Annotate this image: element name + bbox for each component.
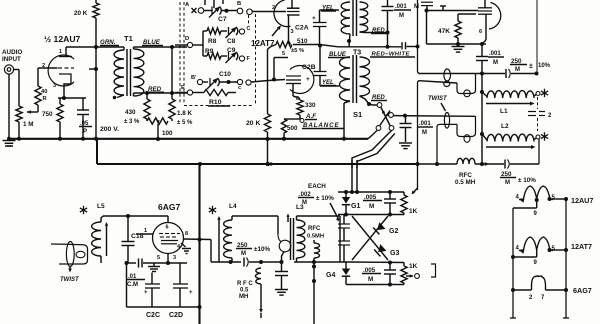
T1 secondary bottom lead [134, 91, 188, 96]
stub at bus [89, 68, 96, 70]
heater 6AG7 wires [511, 288, 568, 292]
RFC bus2 [417, 158, 504, 166]
svg-text:0.5MH: 0.5MH [307, 234, 324, 240]
wire 20K to bus2 [266, 137, 270, 166]
trimmer C8 [226, 27, 238, 38]
cropped wires top [205, 0, 223, 8]
svg-text:6: 6 [166, 225, 169, 231]
terminal c2 [237, 79, 285, 91]
label R10 [208, 99, 230, 106]
S1 red lead dot [367, 102, 371, 106]
label R8 [208, 38, 217, 45]
svg-text:3: 3 [173, 255, 176, 261]
V3 pin6 lead [166, 216, 169, 231]
V3 plate lead pin8 [184, 231, 212, 242]
V2b grid bars [286, 76, 301, 84]
vertical 417 lower [416, 81, 421, 190]
svg-text:L5: L5 [97, 203, 105, 210]
V2a plate [287, 0, 300, 8]
svg-text:.001: .001 [489, 51, 501, 57]
svg-text:430: 430 [125, 109, 136, 116]
wire AU7 to right [553, 197, 568, 318]
svg-text:L1: L1 [500, 108, 508, 115]
mod mid wire [338, 213, 404, 217]
resistor 510 [268, 41, 293, 49]
svg-text:TWIST: TWIST [428, 96, 448, 102]
heater 12AU7 [519, 186, 553, 203]
S1 blade 1 [381, 108, 390, 126]
svg-text:P: P [83, 129, 87, 135]
svg-text:L4: L4 [229, 203, 237, 210]
TWIST eye [76, 251, 85, 257]
label C2D [169, 312, 183, 319]
capacitor C2D [173, 263, 193, 307]
label TWIST lower [60, 277, 80, 283]
T3 lower primary [340, 57, 351, 101]
svg-text:.001: .001 [395, 4, 407, 10]
wire L3 top [297, 215, 341, 217]
label C2A [295, 25, 309, 32]
svg-text:S1: S1 [353, 110, 362, 119]
svg-text:M: M [302, 200, 307, 206]
output bracket [431, 264, 436, 277]
wire L2 down [538, 139, 540, 164]
label RED-WHITE [370, 52, 415, 58]
T3 lower secondary bottom lead [360, 96, 378, 105]
bus2 dots right [435, 162, 484, 166]
svg-text:+: + [312, 15, 316, 22]
label 250 M upper [510, 58, 551, 73]
resistor 20K top [93, 0, 99, 47]
svg-text:M: M [414, 4, 419, 10]
svg-text:B: B [237, 1, 241, 7]
V2a grid cathode [287, 12, 300, 45]
TWIST tall oval [66, 242, 74, 267]
label BLUE T3 [328, 51, 350, 58]
label 20K top [74, 10, 88, 17]
svg-text:± 10%: ± 10% [518, 177, 536, 184]
svg-text:E: E [181, 85, 185, 91]
svg-text:MH: MH [239, 294, 248, 300]
svg-text:40: 40 [41, 89, 47, 95]
label 1.8K [177, 110, 193, 126]
label 200 V [100, 126, 119, 133]
terminal B-prime [191, 75, 208, 85]
star L1 [541, 89, 548, 97]
svg-text:5: 5 [282, 51, 285, 57]
label .001 M cathode [488, 51, 504, 66]
dashed box bottom [184, 105, 254, 107]
label 6AG7 right [573, 286, 592, 295]
wire L4 top [232, 215, 278, 217]
terminal B [237, 1, 286, 15]
wire AT7 right [553, 248, 568, 252]
svg-text:6: 6 [479, 29, 482, 35]
svg-text:TWIST: TWIST [60, 277, 80, 283]
cropped cap top right [414, 2, 433, 10]
potentiometer 1M [16, 105, 38, 139]
T3 core upper [353, 0, 357, 36]
label arrow to caps [330, 203, 339, 222]
coil L5 [92, 216, 103, 263]
coil L1 [480, 90, 540, 98]
T3 lower secondary [360, 57, 370, 96]
label C2B [302, 64, 316, 71]
bottom bus lower left [127, 263, 202, 309]
svg-text:±: ± [529, 63, 533, 70]
RFC under L4 [255, 268, 261, 284]
V1 pin 3 [53, 83, 56, 89]
V1 cathode [59, 74, 71, 98]
S1 blade 2 [380, 111, 390, 126]
diode G1 [342, 192, 350, 215]
wire cathode junction [58, 96, 86, 100]
vertical right thin [536, 0, 538, 74]
svg-text:C.M: C.M [127, 282, 138, 288]
label 12AT7 [251, 26, 281, 49]
label 750 [42, 111, 53, 118]
svg-text:G3: G3 [390, 250, 399, 257]
svg-text:100: 100 [162, 130, 173, 137]
label R9 [205, 48, 214, 55]
svg-text:3: 3 [53, 83, 56, 89]
label L1 [500, 108, 508, 115]
T1 secondary top lead [134, 47, 188, 49]
wire plate GRN [66, 46, 124, 48]
label 12AU7 right [571, 196, 593, 205]
wire grid2 [427, 10, 479, 12]
twist tall oval B [444, 113, 449, 129]
svg-text:200 V.: 200 V. [100, 126, 119, 133]
svg-text:C8: C8 [227, 38, 236, 45]
ground symbol main [3, 141, 16, 147]
svg-text:6AG7: 6AG7 [158, 202, 180, 212]
mod lower wire [352, 261, 404, 265]
S1 to mod wire 1 [352, 131, 392, 191]
V2c cathode lead [482, 14, 486, 44]
L3 right rail [339, 216, 341, 262]
svg-text:.001: .001 [419, 121, 431, 127]
capacitor .001 cathode [476, 44, 488, 164]
svg-text:M: M [369, 203, 374, 210]
svg-text:G1: G1 [351, 203, 360, 210]
capacitor C18 [122, 216, 135, 265]
svg-text:± 5 %: ± 5 % [177, 120, 193, 126]
wire 330 to 500 [284, 119, 304, 123]
svg-text:R9: R9 [205, 48, 214, 55]
label G4 [326, 272, 335, 279]
label G1 [351, 203, 360, 210]
mod top wire [338, 190, 404, 194]
svg-text:T1: T1 [124, 34, 133, 43]
svg-text:R F C: R F C [237, 281, 253, 287]
V3 pin 4 [177, 244, 181, 250]
svg-text:2: 2 [272, 5, 275, 11]
wire 47K top [458, 13, 476, 15]
svg-text:8: 8 [185, 231, 188, 237]
mod diag 1 [352, 216, 388, 260]
V1 plate [59, 47, 72, 57]
V3 grids [159, 234, 180, 244]
label .002 M [298, 192, 334, 206]
svg-text:1: 1 [144, 228, 147, 234]
label 500 [287, 125, 298, 132]
main vertical lower [198, 164, 200, 324]
dashed line outer [179, 2, 181, 104]
svg-text:1.8 K: 1.8 K [177, 110, 193, 117]
label 20K [246, 120, 260, 127]
label C9 [227, 47, 236, 54]
dashed link cap 2 [537, 118, 539, 131]
dashed box right [249, 14, 256, 106]
label 330 [305, 102, 316, 109]
V2a pin 3 [291, 29, 294, 35]
resistor 40R grid [35, 68, 41, 105]
label 47K [438, 28, 450, 35]
label C7 [218, 16, 227, 23]
mod diag 2 [352, 216, 388, 260]
V3 pin 5 [157, 255, 160, 261]
svg-text:C: C [247, 26, 251, 32]
svg-text:0.5: 0.5 [240, 288, 249, 294]
node E [175, 85, 204, 95]
tube V1 half 12AU7 envelope [48, 55, 74, 86]
label 1K lower [409, 263, 418, 270]
S1 output wire [394, 115, 476, 118]
label RFC bus2 [455, 172, 476, 186]
svg-text:INPUT: INPUT [2, 56, 21, 63]
twist chain oval A2 [444, 81, 450, 86]
potentiometer 100 [147, 118, 168, 141]
svg-text:5: 5 [157, 255, 160, 261]
V2c pin 6 [479, 29, 482, 35]
label C2C [146, 312, 160, 319]
T3 upper primary bottom lead [347, 34, 351, 47]
svg-text:1K: 1K [409, 208, 418, 215]
label .005 lower [362, 267, 381, 283]
svg-text:M: M [515, 67, 520, 73]
V2c plate [478, 0, 492, 8]
svg-text:C7: C7 [218, 16, 227, 23]
star L4 [209, 206, 216, 214]
trimmer C10 [207, 78, 237, 89]
arrow L1 [486, 102, 535, 106]
wire box bottom [427, 42, 487, 46]
svg-text:L2: L2 [501, 123, 509, 130]
svg-text:RFC: RFC [308, 226, 321, 232]
link loop L1 [457, 74, 476, 94]
grid tick [440, 6, 446, 11]
label RFC L3 [307, 226, 324, 240]
svg-text:±5 %: ±5 % [291, 48, 304, 54]
diode G2 [373, 222, 385, 234]
T1 core [127, 49, 131, 96]
resistor 750 [57, 98, 63, 139]
capacitor .05 [77, 98, 89, 139]
V1 grid dashes [58, 67, 74, 69]
svg-text:M: M [368, 276, 373, 283]
label 250 M L4 [236, 242, 270, 257]
output terminal [406, 274, 419, 279]
T1 primary bottom lead [113, 95, 124, 99]
capacitor 250 bus2 [505, 160, 539, 169]
label .01 CM [127, 274, 145, 288]
svg-text:+: + [306, 76, 310, 83]
vertical 417 upper [416, 0, 421, 74]
twist chain oval A1 [444, 69, 451, 81]
link wire B lower [437, 124, 457, 164]
label C10 [219, 71, 231, 78]
mod caps column [338, 215, 350, 263]
svg-text:1 M: 1 M [23, 121, 34, 128]
resistor R10 [204, 89, 236, 95]
TWIST dangle [68, 267, 72, 273]
S1 contacts [376, 103, 394, 131]
capacitor .001 S1 [400, 116, 412, 142]
wire line to vert [407, 46, 418, 48]
label 430 [124, 109, 140, 125]
dashed box left [183, 2, 185, 104]
label RED T1 [147, 86, 164, 93]
link eye L2 [464, 135, 470, 143]
ground 47K [452, 44, 465, 52]
label 250 M bus2 [500, 171, 536, 186]
feed arrow 1K [412, 188, 418, 195]
wire L3 bottom [294, 260, 352, 264]
capacitor .005 upper [384, 192, 396, 215]
T3 core lower [353, 55, 357, 103]
wire L5 top [103, 214, 168, 218]
T1 secondary [134, 49, 144, 96]
capacitor .01 CM [139, 259, 188, 268]
capacitor 250 upper [506, 69, 539, 78]
svg-text:C10: C10 [219, 71, 231, 78]
svg-text:M: M [241, 251, 246, 257]
label .001 M s1 [418, 121, 433, 136]
coil L4 [224, 216, 232, 262]
hum bus lower (bus2) [97, 162, 417, 166]
svg-text:G2: G2 [389, 228, 398, 235]
label C8 [227, 38, 236, 45]
V3 pin1 grid lead [136, 228, 153, 234]
star L5 [80, 206, 87, 214]
wire YEL [320, 9, 340, 11]
wire jack to pot [18, 70, 20, 107]
resistor 500 [281, 119, 286, 139]
V2a pin 2 [272, 5, 275, 11]
capacitor .001 top [382, 0, 394, 33]
resistor 1K lower [401, 263, 407, 285]
bus2 hop ticks [352, 160, 357, 168]
T1 primary [114, 47, 124, 95]
svg-text:±10%: ±10% [254, 246, 270, 253]
svg-text:G4: G4 [326, 272, 335, 279]
heater 12AU7 tap [534, 198, 539, 217]
heater 6AG7 [532, 276, 546, 290]
resistor R8 [203, 28, 227, 34]
capacitor .005 lower [384, 263, 396, 285]
svg-text:C2B: C2B [302, 64, 316, 71]
T3 lower primary bottom lead [344, 101, 350, 139]
label .001 M top [394, 4, 411, 19]
label L2 [501, 123, 509, 130]
heater box top [513, 208, 537, 318]
V2b pin 8 [293, 84, 300, 103]
V2b pin 5 [272, 51, 288, 82]
svg-text:750: 750 [42, 111, 53, 118]
ground bus top section [7, 137, 368, 141]
svg-text:½ 12AU7: ½ 12AU7 [44, 34, 81, 44]
label half 12AU7 [44, 34, 81, 44]
svg-text:+: + [189, 290, 193, 296]
label .005 upper [363, 194, 382, 210]
label BLUE [142, 39, 163, 46]
wire jack ground [8, 74, 10, 139]
svg-text:R8: R8 [208, 38, 217, 45]
bus1 to S1 lead [368, 131, 377, 139]
svg-text:1: 1 [59, 49, 62, 55]
label L5 [97, 203, 105, 210]
L3 core [291, 218, 294, 260]
svg-text:1K: 1K [409, 263, 418, 270]
star L2 [541, 132, 548, 140]
svg-text:+: + [144, 290, 148, 296]
svg-text:C2D: C2D [169, 312, 183, 319]
wire blue-red line [320, 45, 402, 49]
svg-text:20 K: 20 K [246, 120, 260, 127]
switch S1 label [353, 110, 362, 119]
terminal F [239, 56, 250, 62]
node dot .001 [403, 114, 407, 118]
label 6AG7 [158, 202, 180, 212]
label 510 [291, 38, 308, 54]
resistor 430 [144, 93, 150, 121]
capacitor C2C [144, 273, 160, 308]
heater 12AT7 [519, 237, 553, 254]
label EACH [308, 183, 326, 190]
label 40R [41, 89, 48, 102]
svg-text:47K: 47K [438, 28, 450, 35]
tube V3 6AG7 envelope [153, 223, 184, 254]
L5 arrow [105, 222, 108, 256]
svg-text:12AU7: 12AU7 [571, 196, 593, 205]
svg-text:2: 2 [42, 63, 45, 69]
link feed down [278, 216, 281, 242]
bus2 arrowhead [271, 162, 276, 166]
label 2 [548, 113, 552, 119]
label RFC L4 [237, 281, 253, 300]
svg-text:C2A: C2A [295, 25, 309, 32]
resistor 1.8K [169, 45, 175, 121]
dashed link cap [537, 97, 539, 109]
svg-text:0.5 MH: 0.5 MH [455, 179, 476, 186]
T3 upper primary [341, 2, 350, 34]
label 1K upper [409, 208, 418, 215]
ground cathode row [148, 263, 160, 272]
label G2 [389, 228, 398, 235]
label .05 P [79, 121, 92, 135]
tube V2b envelope [290, 66, 314, 94]
svg-text:RFC: RFC [459, 172, 472, 179]
svg-text:C2C: C2C [146, 312, 160, 319]
V2c bars [478, 11, 492, 14]
V1 pin 2 [42, 63, 45, 69]
label L3 [296, 204, 304, 211]
svg-text:10%: 10% [538, 63, 551, 69]
capacitor to gnd L4 [275, 262, 288, 289]
tube V2c envelope [489, 3, 501, 30]
label L4 [229, 203, 237, 210]
